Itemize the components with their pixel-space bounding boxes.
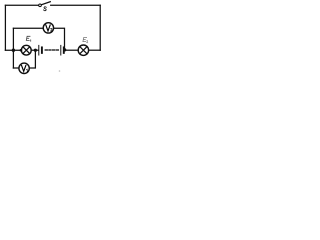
wire battery to lamp E2 bbox=[65, 49, 78, 51]
voltmeter branch vertical (V2 left + V1 left) bbox=[12, 28, 14, 68]
dashed battery continuation bbox=[45, 49, 58, 51]
voltmeter V1 bbox=[19, 63, 29, 73]
label V1 inside meter bbox=[22, 65, 28, 72]
wire E1 to battery bbox=[31, 49, 38, 51]
lamp E2 bbox=[78, 45, 88, 55]
wire E2 to right side bbox=[89, 49, 101, 51]
wire right side bbox=[99, 5, 101, 50]
faint speck bbox=[59, 70, 61, 72]
wire left side bbox=[4, 5, 6, 50]
label S bbox=[44, 7, 47, 11]
wire V1 row right bbox=[29, 50, 35, 68]
switch S bbox=[39, 2, 51, 7]
wire V1 row left bbox=[13, 67, 19, 69]
wire V2 row right bbox=[54, 28, 65, 49]
wire V2 row left bbox=[13, 27, 43, 29]
voltmeter V2 bbox=[43, 23, 53, 33]
wire top-left segment bbox=[5, 4, 38, 6]
battery cell 2 bbox=[61, 45, 64, 55]
label E2 bbox=[83, 38, 88, 43]
lamp E1 bbox=[21, 45, 31, 55]
label V2 inside meter bbox=[46, 25, 53, 31]
junction node at E1 left terminal bbox=[20, 49, 23, 52]
junction node at V branch / bottom wire bbox=[12, 49, 15, 52]
junction node between E1 and battery bbox=[34, 49, 37, 52]
battery cell 1 bbox=[39, 45, 42, 55]
wire bottom: left to lamp E1 bbox=[5, 49, 21, 51]
junction node at battery right / V2 terminal bbox=[63, 48, 66, 51]
wire top-right segment bbox=[51, 4, 100, 6]
label E1 bbox=[26, 36, 30, 41]
